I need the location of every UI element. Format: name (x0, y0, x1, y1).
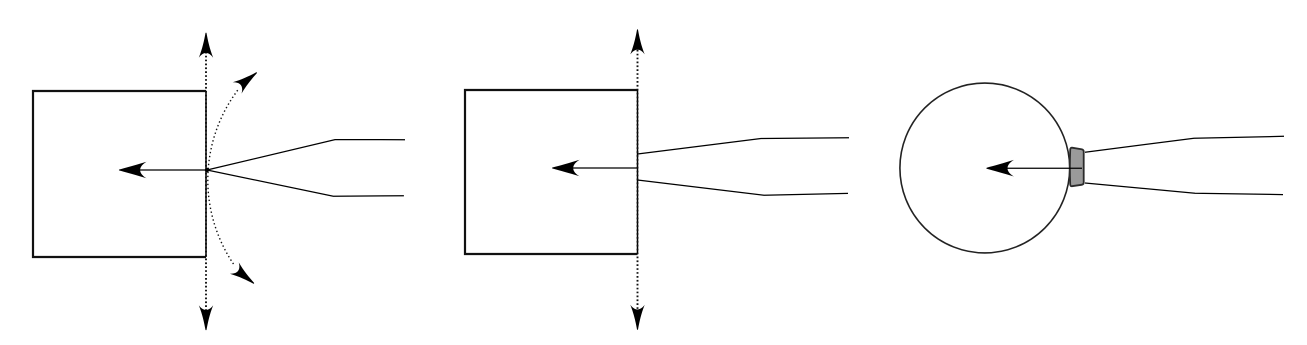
left arrow shaft (559, 167, 638, 169)
left arrow shaft (993, 167, 1082, 169)
lower curved arrowhead (230, 262, 259, 289)
top axis arrowhead (630, 29, 644, 54)
square body (three solid sides) (465, 90, 638, 254)
square body (three solid sides) (33, 91, 206, 257)
lower crack flank (638, 180, 849, 195)
figure 3: circular body with plugged crack (900, 83, 1284, 253)
upper curved arrowhead (233, 67, 262, 94)
upper crack flank (207, 140, 405, 170)
upper crack flank (1085, 136, 1284, 152)
circle body (900, 83, 1070, 253)
square right edge (thin) (205, 91, 207, 257)
dotted vertical axis (205, 44, 207, 318)
dotted vertical axis (637, 42, 639, 318)
bottom axis arrowhead (630, 305, 644, 330)
gray plug (1070, 148, 1084, 187)
lower crack flank (207, 170, 404, 196)
figure 2: square body with open crack at wall (465, 29, 849, 330)
crack tip junction dot (205, 168, 209, 172)
left arrowhead (119, 162, 147, 179)
left arrow shaft (126, 169, 206, 171)
left arrowhead (552, 160, 580, 177)
bottom axis arrowhead (199, 305, 213, 330)
upper crack flank (638, 138, 850, 154)
dotted rotation arc (208, 90, 238, 266)
figure 1: square body with crack closing at wall (33, 33, 405, 331)
top axis arrowhead (199, 33, 213, 58)
lower crack flank (1085, 183, 1283, 195)
left arrowhead (986, 160, 1014, 177)
square right edge (thin) (637, 90, 639, 254)
